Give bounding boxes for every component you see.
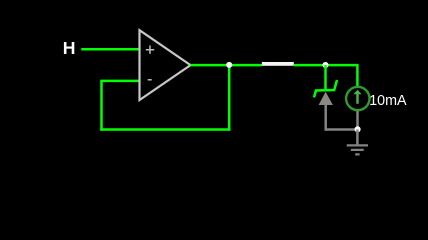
wire zener node to top-right corner [324,64,357,67]
zener diode D1 cathode bar with wings [314,80,337,97]
wire op-amp output [191,64,263,67]
wire feedback left vertical [100,80,103,131]
op-amp U1 triangle body [140,30,191,100]
current source I1 arrow [356,94,358,104]
node junction dot at op-amp output [226,62,232,68]
node junction dot above zener [322,62,328,68]
wire current source bottom lead [356,111,359,130]
node junction dot at ground net [355,126,361,132]
ground symbol [347,145,368,154]
wire zener anode to ground node horizontal [325,128,358,131]
svg-text:H: H [63,38,76,58]
wire op-amp - input [102,80,141,83]
wire ground stub [356,130,359,146]
current source I1 circle [346,87,369,110]
zener diode D1 anode triangle [319,92,333,105]
wire feedback right vertical [228,65,231,131]
svg-text:10mA: 10mA [369,93,407,109]
wire switch to zener node [294,64,327,67]
switch S1 (closed) white lever [262,62,294,66]
wire current source top lead [356,64,359,86]
wire feedback bottom horizontal [100,128,230,131]
wire zener anode lead down [324,104,327,131]
wire zener cathode lead [324,65,327,90]
op-amp + input marker [146,46,154,54]
wire H to op-amp + input [81,48,140,51]
op-amp - input marker [148,79,152,81]
